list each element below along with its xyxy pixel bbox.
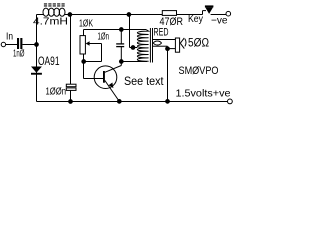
earphone wedge upper (180, 38, 184, 43)
transformer T1 core line 2 (152, 28, 154, 63)
wire node B down to C4 (70, 15, 72, 85)
key S1 knob bar (205, 5, 214, 7)
input terminal In (1, 42, 5, 46)
node C junction (R1 top / C3) (119, 27, 124, 32)
junction top rail / T1 tap feed (127, 12, 132, 17)
wire node C down to C3 (120, 30, 122, 44)
junction emitter / bottom rail (117, 99, 122, 104)
wire junction down to base level (83, 62, 85, 79)
transistor Q1 collector lead diagonal (105, 66, 122, 73)
wire wiper to R1 bottom junction (84, 61, 102, 63)
transformer T1 primary winding (137, 30, 148, 62)
svg-text:1ØØn: 1ØØn (46, 86, 67, 98)
transformer T1 core line 1 (149, 28, 151, 63)
junction secondary / earphone / rail drop (165, 46, 170, 51)
junction C4 / bottom rail (68, 99, 73, 104)
wire C4 to bottom rail (70, 90, 72, 101)
key S1 lever riser (202, 11, 204, 15)
svg-text:1Øn: 1Øn (98, 31, 110, 43)
svg-text:4.7mH: 4.7mH (33, 16, 68, 28)
wire top-left to L1 (37, 14, 44, 16)
transistor Q1 body circle (94, 66, 117, 89)
transistor Q1 emitter lead diagonal (105, 80, 120, 101)
wire top rail L1 to R1 (65, 14, 163, 16)
capacitor C1 1n0 plate2 (20, 38, 22, 49)
wire left rail (36, 15, 38, 102)
wire to Q1 base (84, 78, 104, 80)
wire R1 top lead (83, 30, 85, 36)
junction T1 tap (131, 45, 136, 50)
key S1 contact triangle (205, 7, 213, 13)
junction rail drop / bottom rail (165, 99, 170, 104)
earphone LS1 body (175, 38, 179, 52)
wire C3 to node D (120, 47, 122, 62)
svg-text:RED: RED (154, 27, 169, 39)
wire bottom rail (+ve) (37, 101, 228, 103)
wire C1 to node A (22, 44, 36, 46)
wire node D to T1 primary bottom (121, 61, 147, 63)
earphone sound arc (185, 39, 186, 47)
transformer T1 secondary loop (153, 41, 161, 45)
wire R1 bottom lead (83, 54, 85, 62)
wire R1 top to node C / T1 primary top (84, 29, 147, 31)
wire secondary bottom drop (167, 46, 169, 49)
svg-text:5ØΩ: 5ØΩ (188, 37, 209, 50)
wire junction to earphone (168, 48, 176, 50)
node A junction (34, 42, 39, 47)
terminal +ve (228, 99, 233, 104)
earphone wedge lower (180, 43, 184, 48)
Q1 emitter arrowhead (109, 83, 114, 89)
inductor L1 ferrite core dashes (44, 3, 47, 4)
transformer T1 secondary top lead (153, 39, 175, 41)
wire R1 wiper (89, 43, 101, 45)
resistor R2 470R body (162, 11, 176, 16)
svg-text:SMØVPO: SMØVPO (179, 65, 219, 77)
junction R1 bottom / wiper (81, 59, 86, 64)
svg-text:OA91: OA91 (38, 56, 60, 68)
diode D1 cathode bar (31, 73, 42, 75)
svg-text:1nØ: 1nØ (13, 48, 25, 60)
wire In to C1 (6, 44, 17, 46)
wire junction down to bottom rail (167, 49, 169, 102)
wire tap into winding (130, 47, 138, 49)
wire key to -ve terminal (211, 14, 226, 16)
capacitor C1 1n0 plate1 (17, 38, 19, 49)
capacitor C3 10n plate1 (116, 43, 124, 45)
node D junction (collector / C3 / T1) (119, 59, 124, 64)
potentiometer R1 10K body (80, 36, 85, 54)
terminal -ve (226, 11, 231, 16)
transistor Q1 base bar (103, 71, 105, 83)
diode D1 OA91 triangle (31, 67, 42, 73)
svg-text:47ØR: 47ØR (160, 16, 184, 28)
capacitor C4 100n plate2 (66, 88, 76, 91)
svg-text:In: In (6, 31, 13, 43)
svg-text:1.5volts+ve: 1.5volts+ve (176, 87, 231, 99)
svg-text:Key: Key (188, 13, 204, 25)
svg-text:−ve: −ve (211, 14, 228, 26)
R1 wiper arrowhead (86, 41, 90, 45)
transformer T1 secondary bottom lead (153, 45, 168, 47)
svg-text:1ØK: 1ØK (79, 18, 93, 30)
capacitor C4 100n plate1 (66, 84, 76, 87)
wire R2 to key (177, 14, 203, 16)
wire wiper elbow down (101, 44, 103, 62)
capacitor C3 10n plate2 (116, 46, 124, 48)
wire tap feed down (129, 15, 131, 48)
svg-text:See text: See text (124, 74, 164, 88)
node B junction (L1 out / top rail / C4 branch) (68, 12, 73, 17)
wire collector stub to node D (120, 62, 122, 66)
key S1 lever (203, 10, 207, 12)
inductor L1 4.7mH winding loops (43, 8, 49, 16)
